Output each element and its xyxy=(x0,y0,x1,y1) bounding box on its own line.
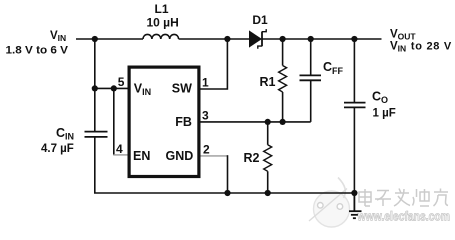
wire EN riser xyxy=(113,88,115,155)
wire SW riser to top rail xyxy=(201,39,228,89)
watermark logo elecfans xyxy=(309,178,350,228)
svg-text:R2: R2 xyxy=(244,151,260,165)
resistor R1 xyxy=(279,39,287,122)
svg-text:1: 1 xyxy=(202,76,209,90)
resistor R2 xyxy=(264,122,272,193)
svg-text:10 µH: 10 µH xyxy=(147,16,179,30)
svg-text:1.8 V to 6 V: 1.8 V to 6 V xyxy=(6,45,69,57)
capacitor CIN xyxy=(85,132,108,137)
svg-text:4: 4 xyxy=(116,142,123,156)
watermark text 电子发烧友 (pseudo glyphs) xyxy=(359,189,448,207)
svg-text:EN: EN xyxy=(133,149,150,163)
capacitor CFF xyxy=(300,39,322,122)
svg-text:2: 2 xyxy=(203,143,210,157)
svg-text:5: 5 xyxy=(118,75,125,89)
wire CIN to ground bus and bus to ground xyxy=(95,138,355,194)
svg-text:L1: L1 xyxy=(155,2,169,16)
wire EN stub gray xyxy=(113,154,128,156)
wire GND pin2 stub gray xyxy=(201,155,228,157)
svg-text:R1: R1 xyxy=(260,75,276,89)
wire pin2 drop to bus xyxy=(227,155,229,193)
wire top rail VIN to L1 xyxy=(76,38,143,40)
svg-text:4.7 µF: 4.7 µF xyxy=(41,143,74,155)
svg-text:1 µF: 1 µF xyxy=(373,108,396,120)
wire VIN vertical drop to CIN xyxy=(94,39,96,131)
ground symbol xyxy=(349,193,362,218)
junction node dots xyxy=(92,36,358,196)
svg-text:SW: SW xyxy=(172,82,192,96)
wire D1 to VOUT xyxy=(262,38,382,40)
wire FB net xyxy=(201,121,311,123)
IC U1 box xyxy=(129,67,199,176)
wire L1 to D1 xyxy=(179,38,250,40)
svg-text:D1: D1 xyxy=(252,13,268,27)
wire pin5 VIN feed xyxy=(95,87,128,89)
svg-text:www.elecfans.com: www.elecfans.com xyxy=(357,209,450,224)
inductor L1 xyxy=(143,34,179,39)
capacitor CO xyxy=(344,39,366,193)
svg-text:FB: FB xyxy=(175,115,192,129)
svg-text:3: 3 xyxy=(202,109,209,123)
diode D1 xyxy=(249,29,266,49)
svg-text:GND: GND xyxy=(166,149,194,163)
